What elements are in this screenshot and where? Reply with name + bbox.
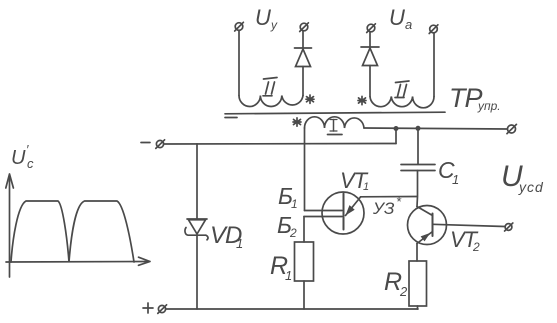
- wire: plus rail: [166, 308, 418, 310]
- svg-text:УЗ: УЗ: [372, 199, 395, 218]
- resistor R1: [295, 242, 314, 281]
- wire: VT2 emitter to R2: [416, 244, 418, 262]
- transistor VT1 (unijunction): [322, 192, 364, 234]
- svg-text:c: c: [27, 156, 34, 171]
- label R2: [384, 268, 408, 299]
- svg-text:2: 2: [399, 284, 408, 299]
- svg-text:1: 1: [291, 197, 298, 211]
- wire: right winding to Ua terminal: [433, 33, 435, 97]
- terminal above left diode: [300, 23, 309, 32]
- svg-text:y: y: [270, 18, 278, 32]
- terminal minus: [141, 140, 165, 149]
- svg-text:1: 1: [452, 172, 459, 187]
- label R1: [270, 252, 292, 283]
- winding II right: [370, 97, 434, 108]
- waveform: two clipped half-sine humps: [11, 201, 134, 262]
- wire: winding I to output node: [364, 128, 507, 129]
- label VD1: [210, 222, 243, 251]
- resistor R2: [409, 261, 427, 306]
- svg-text:упр.: упр.: [477, 99, 501, 113]
- asterisk left winding: [306, 95, 314, 103]
- wire: B2 down to R1: [303, 217, 305, 243]
- terminal output upper right: [507, 124, 516, 133]
- node junction dot A: [394, 126, 399, 131]
- label C1: [438, 157, 459, 187]
- transistor VT2: [408, 206, 447, 245]
- diode left rectifier: [295, 31, 312, 96]
- svg-text:1: 1: [363, 181, 369, 193]
- wire: minus rail riser to node A: [395, 129, 397, 144]
- asterisk right winding: [358, 96, 366, 104]
- waveform graph axes (U'c plot): [6, 174, 150, 277]
- wire: C1 to VT2 collector node: [416, 171, 419, 207]
- wire: base branch from winding I left end down: [304, 128, 306, 211]
- wire: minus rail: [164, 143, 396, 146]
- label I: [328, 120, 343, 135]
- svg-text:усd: усd: [518, 179, 544, 195]
- label VT2: [450, 227, 480, 254]
- wire: node B down to C1: [417, 128, 419, 164]
- node junction dot B: [416, 126, 421, 131]
- wire: R2 to plus rail: [417, 306, 419, 309]
- winding II left: [239, 96, 303, 107]
- label TRupr: [449, 83, 501, 113]
- core stub mark: [225, 117, 237, 119]
- capacitor C1: [401, 165, 435, 171]
- wire: VT1 emitter to C1 node: [361, 196, 418, 198]
- svg-text:1: 1: [236, 236, 243, 251]
- zener diode VD1: [185, 219, 208, 240]
- winding I: [305, 117, 365, 128]
- svg-text:a: a: [405, 17, 412, 32]
- svg-text:2: 2: [289, 226, 297, 240]
- wire: VT2 base to output terminal: [433, 224, 505, 226]
- label II left: [263, 78, 277, 96]
- wire: B2 stub: [304, 216, 342, 218]
- svg-text:U: U: [255, 5, 271, 30]
- wire: B1 stub: [305, 210, 343, 212]
- wire: left winding to Uy terminal: [238, 31, 240, 96]
- svg-text:1: 1: [285, 268, 292, 283]
- label II right: [395, 81, 409, 98]
- label B2: [277, 212, 297, 240]
- svg-text:U: U: [11, 147, 26, 169]
- wire: VD1 branch lower: [196, 236, 198, 310]
- terminal Ua: [429, 25, 438, 34]
- terminal above right diode: [367, 24, 376, 33]
- label Uy: [255, 5, 278, 32]
- asterisk winding I: [293, 118, 301, 126]
- diode right rectifier: [361, 32, 379, 97]
- terminal plus: [143, 303, 167, 313]
- label U'c: [11, 142, 34, 171]
- label UZ*: [372, 194, 402, 218]
- svg-text:′: ′: [26, 142, 29, 157]
- label VT1: [340, 168, 369, 193]
- transformer core: [225, 112, 445, 114]
- label Ua: [389, 5, 412, 32]
- label U output (Uusd): [501, 160, 544, 195]
- svg-text:2: 2: [472, 240, 480, 254]
- terminal output right (VT2): [505, 223, 513, 231]
- terminal Uy: [235, 22, 244, 31]
- wire: VD1 branch upper: [196, 144, 198, 219]
- label B1: [278, 183, 298, 211]
- wire: R1 to plus rail: [303, 281, 305, 309]
- svg-text:U: U: [389, 5, 405, 30]
